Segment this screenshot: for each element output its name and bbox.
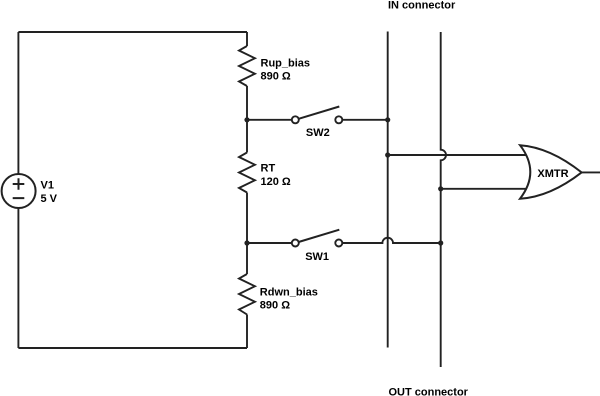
resistor Rdwn_bias	[239, 274, 255, 315]
junction node XMTR top wire on IN line 1	[385, 152, 390, 157]
svg-text:890 Ω: 890 Ω	[260, 300, 290, 312]
junction node SW1 wire on line 2	[438, 240, 443, 245]
wire XMTR top input	[388, 154, 530, 156]
wire XMTR bottom input	[441, 188, 530, 190]
svg-text:Rdwn_bias: Rdwn_bias	[260, 286, 318, 298]
wire SW1 left	[247, 242, 292, 244]
wire left vertical through V1	[17, 32, 19, 348]
switch SW2	[292, 107, 343, 124]
wire Rdwn_bias bottom lead	[246, 315, 248, 349]
wire SW2 right	[342, 119, 387, 121]
svg-text:OUT connector: OUT connector	[389, 386, 469, 396]
resistor RT	[239, 153, 255, 193]
wire RT bottom lead to node B	[246, 193, 248, 275]
junction node SW2 on IN line 1	[385, 117, 390, 122]
wire resistor-branch top lead	[246, 32, 248, 46]
wire bottom horizontal	[18, 347, 247, 349]
svg-text:SW2: SW2	[306, 127, 330, 139]
svg-text:RT: RT	[261, 163, 276, 175]
switch SW1	[292, 230, 343, 247]
svg-text:890 Ω: 890 Ω	[261, 71, 291, 83]
voltage source V1	[2, 174, 36, 208]
wire top horizontal from V1 branch to resistor branch	[18, 31, 247, 33]
svg-text:IN connector: IN connector	[388, 0, 456, 11]
resistor Rup_bias	[239, 46, 255, 86]
svg-text:Rup_bias: Rup_bias	[261, 57, 311, 69]
IN connector line 1	[387, 32, 389, 348]
IN connector line 2 with hop over XMTR wire	[441, 32, 446, 367]
wire SW2 left	[247, 119, 292, 121]
OR gate XMTR	[520, 145, 582, 199]
wire XMTR output	[582, 171, 600, 173]
svg-text:5 V: 5 V	[41, 193, 58, 205]
svg-text:V1: V1	[41, 179, 54, 191]
svg-text:120 Ω: 120 Ω	[261, 176, 291, 188]
junction node at Rup_bias/SW2	[244, 117, 249, 122]
svg-text:SW1: SW1	[305, 251, 329, 263]
wire SW1 right with hop over IN line	[342, 238, 440, 243]
svg-text:XMTR: XMTR	[537, 168, 568, 180]
junction node at RT/SW1	[244, 240, 249, 245]
wire Rup_bias bottom lead to node A	[246, 86, 248, 153]
junction node XMTR bottom wire on line 2	[438, 186, 443, 191]
